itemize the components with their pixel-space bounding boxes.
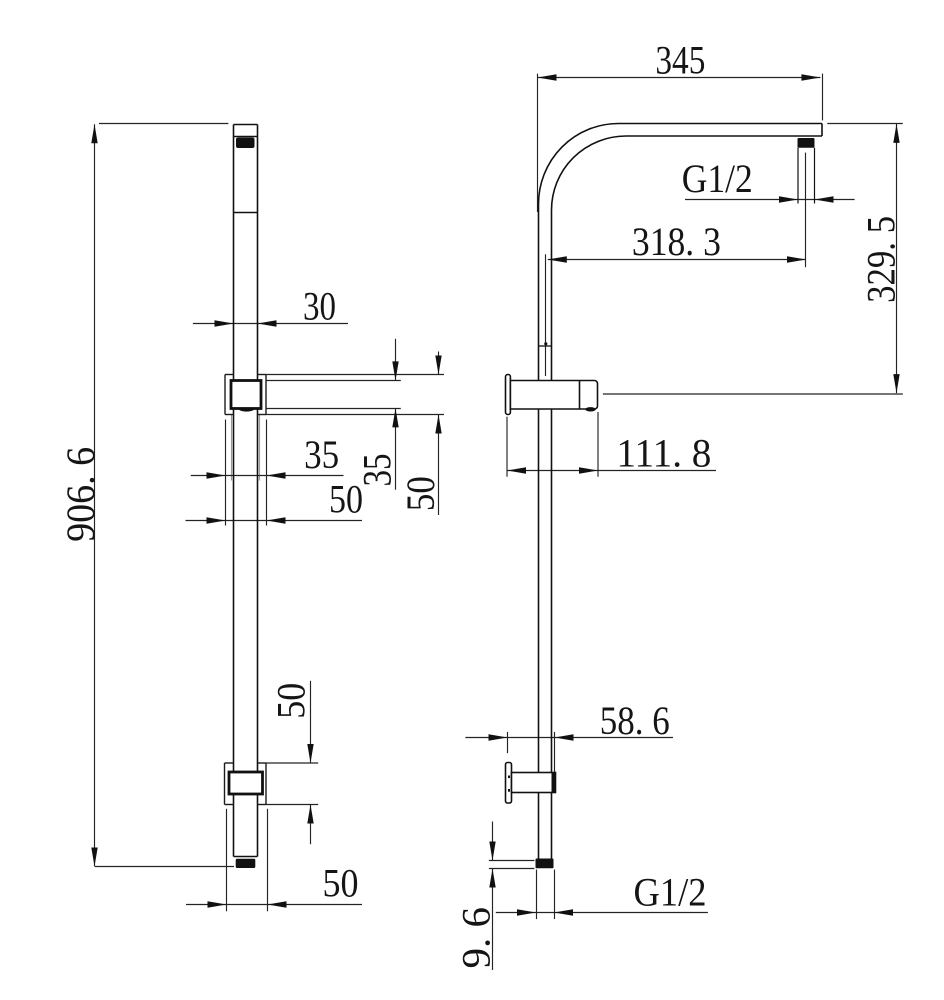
- svg-text:9. 6: 9. 6: [454, 907, 499, 969]
- svg-text:58. 6: 58. 6: [600, 698, 670, 743]
- svg-text:G1/2: G1/2: [634, 870, 707, 915]
- svg-text:111. 8: 111. 8: [616, 430, 711, 475]
- svg-text:50: 50: [323, 861, 359, 906]
- svg-text:318. 3: 318. 3: [632, 219, 721, 264]
- svg-text:906. 6: 906. 6: [58, 447, 103, 542]
- svg-text:35: 35: [304, 432, 339, 477]
- svg-text:345: 345: [655, 37, 705, 82]
- svg-text:G1/2: G1/2: [682, 156, 753, 201]
- svg-text:30: 30: [303, 283, 336, 328]
- svg-text:50: 50: [268, 683, 313, 719]
- svg-text:35: 35: [355, 454, 400, 487]
- svg-text:50: 50: [398, 476, 443, 511]
- svg-text:329. 5: 329. 5: [859, 216, 904, 303]
